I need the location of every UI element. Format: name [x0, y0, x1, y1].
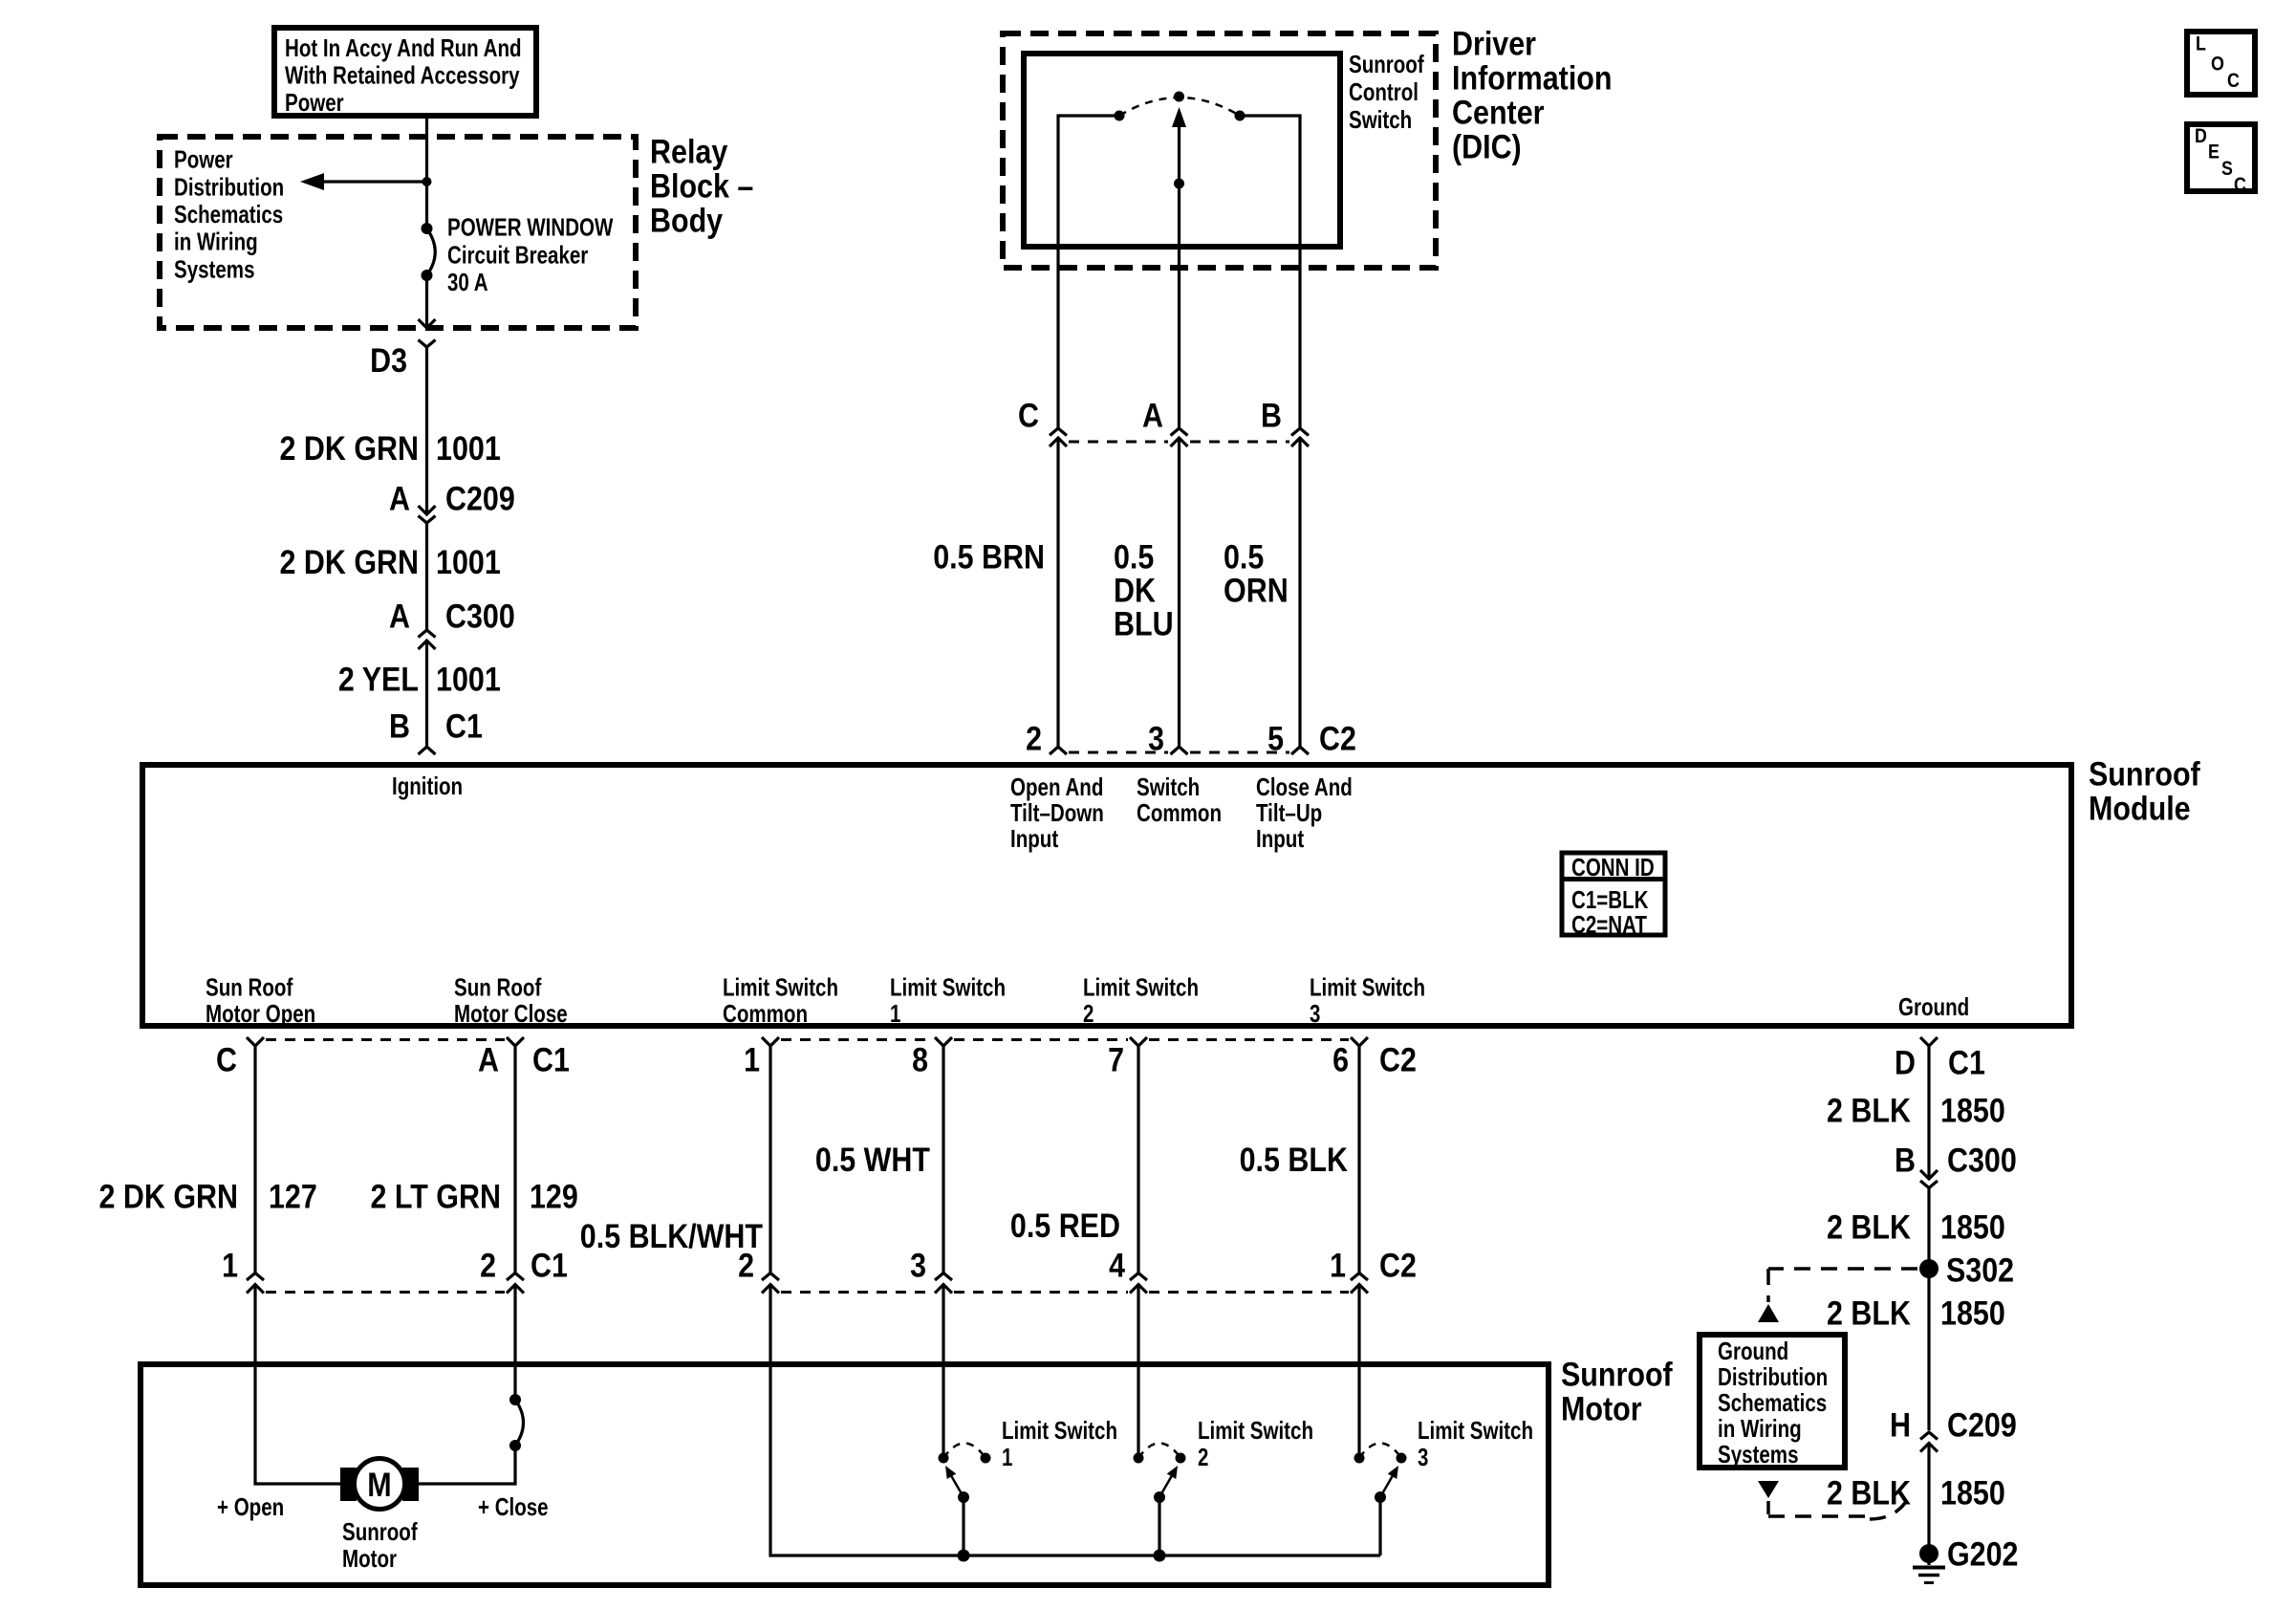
- pin label B C1: [389, 708, 483, 746]
- wire label 2 DK GRN 1001: [280, 544, 501, 581]
- svg-text:2 BLK: 2 BLK: [1827, 1093, 1911, 1130]
- svg-text:C209: C209: [1947, 1407, 2017, 1445]
- svg-text:7: 7: [1108, 1042, 1124, 1079]
- svg-text:Circuit Breaker: Circuit Breaker: [447, 240, 588, 269]
- svg-text:Motor Open: Motor Open: [206, 999, 315, 1028]
- svg-text:Common: Common: [723, 999, 808, 1028]
- power source box "Hot In Accy And Run And With Retained Accessory Power": [274, 28, 536, 117]
- svg-text:With Retained Accessory: With Retained Accessory: [285, 61, 520, 90]
- wire C300 to S302: [1927, 1188, 1930, 1431]
- wire into limit switch 1: [942, 1285, 944, 1454]
- svg-text:C2: C2: [1319, 721, 1356, 758]
- module pin forks 2 3 5: [1050, 747, 1309, 754]
- svg-text:3: 3: [910, 1248, 926, 1285]
- svg-text:D: D: [1895, 1045, 1916, 1082]
- svg-text:Common: Common: [1137, 798, 1222, 827]
- svg-text:Information: Information: [1452, 60, 1613, 98]
- svg-text:Body: Body: [650, 203, 724, 240]
- svg-text:M: M: [367, 1467, 391, 1504]
- svg-text:6: 6: [1332, 1042, 1349, 1079]
- svg-text:Sun Roof: Sun Roof: [206, 973, 293, 1002]
- dashed reference below ground distribution box: [1758, 1481, 1905, 1519]
- svg-text:B: B: [1895, 1142, 1916, 1180]
- svg-text:C: C: [2234, 174, 2246, 196]
- sunroof control switch solid box: [1024, 54, 1340, 247]
- wire into limit switch 2: [1137, 1285, 1139, 1454]
- wire A to module: 0.5 DK BLU: [1178, 438, 1180, 747]
- svg-text:C2=NAT: C2=NAT: [1571, 910, 1647, 939]
- label Limit Switch 3: [1418, 1416, 1533, 1471]
- svg-text:1: 1: [744, 1042, 760, 1079]
- node right contact: [1235, 111, 1245, 121]
- svg-text:D3: D3: [370, 342, 407, 380]
- svg-text:Center: Center: [1452, 95, 1545, 132]
- module bottom pin forks row: [247, 1037, 1938, 1046]
- CONN ID table: [1562, 853, 1665, 939]
- svg-text:2 BLK: 2 BLK: [1827, 1475, 1911, 1512]
- svg-text:Distribution: Distribution: [174, 172, 284, 201]
- dashed connector line C2 (limit switch group): [781, 1038, 1349, 1041]
- switch common wire with up arrow: [1172, 107, 1186, 428]
- wire sunroof motor open (pin C): [253, 1046, 256, 1273]
- svg-text:Sunroof: Sunroof: [2089, 756, 2200, 794]
- wire C to module: 0.5 BRN: [1056, 438, 1059, 747]
- svg-text:C1: C1: [445, 708, 483, 746]
- svg-text:0.5: 0.5: [1114, 539, 1154, 577]
- bus junction node switch 1: [958, 1550, 970, 1562]
- svg-text:1001: 1001: [436, 662, 501, 699]
- wire arrow to power distribution schematics: [300, 173, 427, 190]
- svg-text:0.5 RED: 0.5 RED: [1010, 1207, 1120, 1245]
- svg-text:1850: 1850: [1940, 1209, 2005, 1247]
- sunroof module box: [142, 765, 2071, 1026]
- label Sunroof Motor (under motor): [342, 1517, 418, 1573]
- svg-text:C1: C1: [531, 1248, 568, 1285]
- svg-text:(DIC): (DIC): [1452, 129, 1522, 166]
- svg-text:C: C: [2227, 70, 2240, 92]
- node on common wire: [1174, 179, 1184, 189]
- wire C209 to C300: [425, 523, 428, 630]
- svg-text:S: S: [2221, 158, 2233, 180]
- svg-text:O: O: [2211, 54, 2224, 76]
- svg-text:2 BLK: 2 BLK: [1827, 1295, 1911, 1333]
- svg-text:H: H: [1890, 1407, 1911, 1445]
- wire label 2 BLK 1850: [1827, 1209, 2005, 1247]
- svg-text:Limit Switch: Limit Switch: [890, 973, 1006, 1002]
- svg-text:BLU: BLU: [1114, 606, 1174, 643]
- svg-text:in Wiring: in Wiring: [174, 228, 258, 256]
- svg-text:Power: Power: [174, 145, 233, 174]
- port label Sun Roof Motor Open: [206, 973, 315, 1029]
- svg-text:Distribution: Distribution: [1718, 1362, 1828, 1391]
- ground G202: [1913, 1544, 1945, 1583]
- port label Limit Switch 2: [1083, 973, 1199, 1029]
- svg-text:1: 1: [1002, 1443, 1012, 1471]
- svg-text:2 YEL: 2 YEL: [338, 662, 419, 699]
- dashed switch travel arc: [1119, 98, 1240, 116]
- wire motor open into box to motor: [255, 1285, 340, 1485]
- wire label 2 DK GRN 127: [99, 1179, 317, 1216]
- svg-text:C300: C300: [445, 598, 515, 636]
- wire label 2 BLK 1850: [1827, 1093, 2005, 1130]
- pin labels C A B: [1018, 398, 1282, 435]
- ground distribution schematics box: [1700, 1335, 1845, 1469]
- svg-text:C2: C2: [1379, 1042, 1417, 1079]
- svg-text:POWER WINDOW: POWER WINDOW: [447, 213, 614, 242]
- pin label D C1 (module ground): [1895, 1045, 1985, 1082]
- wire breaker to motor: [419, 1446, 515, 1484]
- circuit breaker POWER WINDOW 30 A: [422, 223, 436, 281]
- svg-text:A: A: [389, 481, 410, 518]
- svg-text:Sunroof: Sunroof: [1561, 1357, 1673, 1394]
- node: junction to power distribution arrow: [422, 177, 432, 186]
- label Sunroof Module: [2089, 756, 2200, 828]
- svg-text:Motor: Motor: [1561, 1391, 1642, 1428]
- label Sunroof Motor (right of box): [1561, 1357, 1673, 1428]
- svg-text:A: A: [389, 598, 410, 636]
- svg-text:1: 1: [1330, 1248, 1346, 1285]
- svg-text:C2: C2: [1379, 1248, 1417, 1285]
- svg-text:2: 2: [738, 1248, 754, 1285]
- wire label 0.5 DK BLU: [1114, 539, 1174, 643]
- label Relay Block - Body: [650, 134, 753, 240]
- limit switch 1: [939, 1444, 991, 1556]
- in-line connector C300 (ground path): [1920, 1170, 1938, 1188]
- svg-text:C300: C300: [1947, 1142, 2017, 1180]
- svg-text:1: 1: [890, 999, 900, 1028]
- svg-text:L: L: [2196, 33, 2206, 55]
- svg-text:Control: Control: [1349, 77, 1419, 106]
- svg-text:C1: C1: [532, 1042, 570, 1079]
- svg-text:Close And: Close And: [1256, 772, 1353, 801]
- node switch common top: [1174, 92, 1184, 102]
- svg-text:S302: S302: [1946, 1252, 2014, 1290]
- wire into limit switch 3: [1357, 1285, 1360, 1454]
- svg-text:0.5 BRN: 0.5 BRN: [933, 539, 1045, 577]
- svg-text:Systems: Systems: [174, 254, 255, 283]
- wire limit switch 1 (pin 8): [942, 1046, 944, 1273]
- LOC badge: [2187, 32, 2255, 95]
- switch right fixed contact wire (close): [1245, 116, 1300, 428]
- wire limit switch 2 (pin 7): [1137, 1046, 1139, 1273]
- svg-text:Limit Switch: Limit Switch: [1002, 1416, 1117, 1445]
- label Limit Switch 1: [1002, 1416, 1117, 1471]
- svg-text:1850: 1850: [1940, 1475, 2005, 1512]
- wire C300 to sunroof module pin B: [425, 641, 428, 747]
- in-line connector C300: [419, 630, 436, 649]
- svg-text:Hot In Accy And Run And: Hot In Accy And Run And: [285, 33, 522, 62]
- wire label 2 YEL 1001: [338, 662, 501, 699]
- svg-text:ORN: ORN: [1224, 573, 1289, 610]
- svg-text:Input: Input: [1256, 824, 1304, 853]
- svg-text:Block –: Block –: [650, 168, 753, 206]
- pin labels 2 3 5 C2: [1026, 721, 1356, 758]
- svg-text:Open And: Open And: [1010, 772, 1103, 801]
- Driver Information Center dashed box: [1003, 33, 1436, 268]
- wire D3 to C209: [425, 347, 428, 512]
- svg-text:C: C: [1018, 398, 1039, 435]
- label POWER WINDOW Circuit Breaker 30 A: [447, 213, 614, 297]
- limit switch 2: [1134, 1444, 1186, 1556]
- wire breaker to relay block edge with arrow: [419, 275, 436, 328]
- svg-text:2 BLK: 2 BLK: [1827, 1209, 1911, 1247]
- node left contact: [1115, 111, 1125, 121]
- wire label 2 BLK 1850: [1827, 1295, 2005, 1333]
- port label Switch Common: [1137, 772, 1222, 827]
- module pin fork B: [419, 747, 436, 754]
- svg-text:2 LT GRN: 2 LT GRN: [371, 1179, 502, 1216]
- svg-text:3: 3: [1310, 999, 1320, 1028]
- svg-text:Ground: Ground: [1898, 992, 1969, 1021]
- svg-text:Sunroof: Sunroof: [342, 1517, 418, 1546]
- label Driver Information Center (DIC): [1452, 26, 1613, 166]
- wire label 2 DK GRN 1001: [280, 430, 501, 468]
- svg-text:Ignition: Ignition: [392, 772, 463, 800]
- svg-text:Tilt–Up: Tilt–Up: [1256, 798, 1322, 827]
- svg-text:4: 4: [1109, 1248, 1125, 1285]
- limit switch 3: [1354, 1444, 1407, 1556]
- DESC badge: [2187, 124, 2255, 196]
- svg-text:2: 2: [1083, 999, 1094, 1028]
- svg-text:Limit Switch: Limit Switch: [1418, 1416, 1533, 1445]
- svg-text:8: 8: [912, 1042, 928, 1079]
- svg-text:Input: Input: [1010, 824, 1058, 853]
- wire label 2 BLK 1850: [1827, 1475, 2005, 1512]
- switch left fixed contact wire (open): [1058, 116, 1115, 428]
- svg-text:30 A: 30 A: [447, 268, 488, 296]
- wire B to module: 0.5 ORN: [1298, 438, 1301, 747]
- bus junction node switch 2: [1154, 1550, 1166, 1562]
- svg-text:3: 3: [1418, 1443, 1428, 1471]
- splice node S302: [1919, 1259, 1939, 1278]
- pin labels row: C / A C1 / 1 / 8 / 7 / 6 C2: [216, 1042, 1417, 1079]
- svg-text:+ Close: + Close: [478, 1492, 549, 1521]
- relay block dashed box: [160, 137, 636, 328]
- svg-text:A: A: [1142, 398, 1163, 435]
- svg-text:1850: 1850: [1940, 1093, 2005, 1130]
- svg-text:2: 2: [1026, 721, 1042, 758]
- svg-text:C209: C209: [445, 481, 515, 518]
- wire C209 to G202: [1927, 1444, 1930, 1546]
- in-line connector row 2 symbols: [247, 1273, 1368, 1294]
- svg-text:Motor Close: Motor Close: [454, 999, 568, 1028]
- motor thermal breaker arc: [509, 1394, 524, 1451]
- svg-text:0.5: 0.5: [1224, 539, 1264, 577]
- svg-text:129: 129: [530, 1179, 578, 1216]
- svg-text:C1: C1: [1948, 1045, 1985, 1082]
- svg-text:Sunroof: Sunroof: [1349, 50, 1424, 78]
- svg-text:0.5 BLK/WHT: 0.5 BLK/WHT: [580, 1218, 763, 1255]
- svg-text:Limit Switch: Limit Switch: [1083, 973, 1199, 1002]
- connector fork at relay block output D3: [419, 340, 436, 348]
- svg-text:C: C: [216, 1042, 237, 1079]
- svg-text:Tilt–Down: Tilt–Down: [1010, 798, 1104, 827]
- wire label 0.5 ORN: [1224, 539, 1289, 610]
- dashed connector line row2 left pair: [266, 1291, 505, 1294]
- svg-text:Sun Roof: Sun Roof: [454, 973, 542, 1002]
- wire label 2 LT GRN 129: [371, 1179, 578, 1216]
- svg-text:Schematics: Schematics: [1718, 1388, 1827, 1417]
- pin label B C300: [1895, 1142, 2017, 1180]
- svg-text:1: 1: [222, 1248, 238, 1285]
- port label Sun Roof Motor Close: [454, 973, 568, 1029]
- wire motor close into box: [513, 1285, 516, 1399]
- dashed connector line at module pins: [1069, 751, 1289, 754]
- svg-text:2: 2: [1198, 1443, 1208, 1471]
- svg-text:1001: 1001: [436, 430, 501, 468]
- dashed connector line row2 limit switch group: [781, 1291, 1349, 1294]
- sunroof motor box: [141, 1364, 1549, 1585]
- in-line connector C209: [419, 506, 436, 523]
- ground wire from module: [1927, 1046, 1930, 1177]
- DIC connector row (in-line): [1050, 428, 1309, 446]
- dashed reference from S302 to ground distribution: [1758, 1269, 1917, 1322]
- svg-text:2 DK GRN: 2 DK GRN: [280, 544, 420, 581]
- port label Close And Tilt-Up Input: [1256, 772, 1353, 853]
- svg-text:Driver: Driver: [1452, 26, 1536, 63]
- svg-text:Systems: Systems: [1718, 1440, 1799, 1469]
- svg-text:0.5 WHT: 0.5 WHT: [815, 1142, 930, 1179]
- svg-text:2 DK GRN: 2 DK GRN: [280, 430, 420, 468]
- svg-text:CONN ID: CONN ID: [1571, 853, 1655, 881]
- port label Limit Switch 1: [890, 973, 1006, 1029]
- svg-text:Ground: Ground: [1718, 1337, 1788, 1365]
- svg-text:D: D: [2195, 125, 2207, 147]
- note Power Distribution Schematics in Wiring Systems: [174, 145, 284, 284]
- svg-text:in Wiring: in Wiring: [1718, 1414, 1802, 1443]
- motor M sunroof motor: [340, 1459, 419, 1510]
- wire sunroof motor close (pin A): [513, 1046, 516, 1273]
- pin label H C209: [1890, 1407, 2017, 1445]
- wire limit switch common (pin 1): [769, 1046, 771, 1273]
- svg-text:+ Open: + Open: [217, 1492, 284, 1521]
- svg-text:Relay: Relay: [650, 134, 728, 171]
- label Limit Switch 2: [1198, 1416, 1313, 1471]
- port label Limit Switch 3: [1310, 973, 1425, 1029]
- svg-text:2 DK GRN: 2 DK GRN: [99, 1179, 239, 1216]
- svg-text:1850: 1850: [1940, 1295, 2005, 1333]
- svg-text:127: 127: [269, 1179, 317, 1216]
- limit switch common bus wire: [770, 1285, 1380, 1556]
- wire from hot box down to circuit breaker: [425, 116, 428, 228]
- svg-text:Limit Switch: Limit Switch: [1198, 1416, 1313, 1445]
- pin labels row2: 1 / 2 C1 / 2 / 3 / 4 / 1 C2: [222, 1248, 1417, 1285]
- svg-text:Schematics: Schematics: [174, 200, 283, 228]
- svg-text:G202: G202: [1947, 1536, 2019, 1574]
- port label Limit Switch Common: [723, 973, 838, 1029]
- svg-text:Switch: Switch: [1137, 772, 1200, 801]
- dashed connector line: [1069, 441, 1289, 444]
- svg-text:A: A: [478, 1042, 499, 1079]
- port label Open And Tilt-Down Input: [1010, 772, 1104, 853]
- wire limit switch 3 (pin 6): [1357, 1046, 1360, 1273]
- svg-text:E: E: [2208, 141, 2220, 163]
- dashed connector line C1 (left pair): [266, 1038, 505, 1041]
- svg-text:DK: DK: [1114, 573, 1156, 610]
- svg-text:Module: Module: [2089, 791, 2191, 828]
- in-line connector C209 (ground path): [1920, 1432, 1938, 1452]
- svg-text:Limit Switch: Limit Switch: [1310, 973, 1425, 1002]
- label Sunroof Control Switch: [1349, 50, 1424, 134]
- svg-text:1001: 1001: [436, 544, 501, 581]
- svg-text:B: B: [1261, 398, 1282, 435]
- pin label A C209: [389, 481, 515, 518]
- svg-text:0.5 BLK: 0.5 BLK: [1240, 1142, 1348, 1179]
- svg-text:Power: Power: [285, 88, 344, 117]
- svg-text:Motor: Motor: [342, 1544, 397, 1573]
- svg-text:2: 2: [480, 1248, 496, 1285]
- svg-text:Switch: Switch: [1349, 105, 1412, 134]
- pin label A C300: [389, 598, 515, 636]
- svg-text:B: B: [389, 708, 410, 746]
- svg-text:Limit Switch: Limit Switch: [723, 973, 838, 1002]
